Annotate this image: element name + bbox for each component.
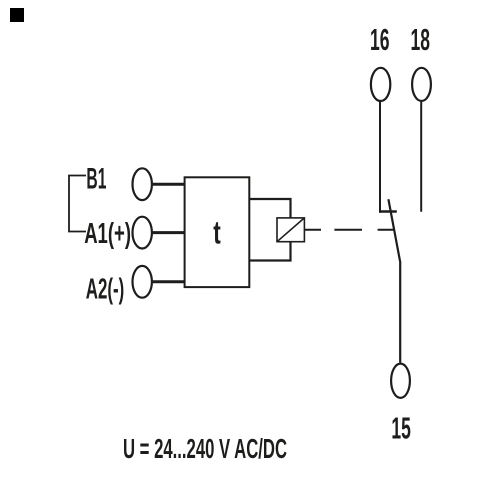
terminal circle 16	[371, 68, 390, 101]
wire A2 to timer	[151, 280, 185, 283]
svg-text:A2(-): A2(-)	[86, 273, 125, 305]
actuation dashed link	[304, 229, 393, 231]
corner marker	[10, 8, 24, 22]
terminal circle B1	[133, 168, 152, 200]
wire contact 16	[379, 102, 381, 213]
terminal circle 15	[391, 364, 410, 398]
wire timer to coil top	[249, 199, 290, 218]
terminal circle A2	[133, 266, 152, 298]
svg-text:t: t	[213, 214, 221, 250]
svg-text:18: 18	[411, 22, 431, 57]
svg-text:U = 24...240 V AC/DC: U = 24...240 V AC/DC	[123, 433, 287, 464]
terminal circle 18	[412, 68, 431, 101]
contact arm	[388, 199, 400, 362]
wire A1 to timer	[151, 231, 185, 234]
wire B1 to timer	[151, 183, 185, 186]
terminal circle A1	[133, 217, 152, 249]
bracket linking B1 and A1	[69, 176, 86, 232]
svg-text:B1: B1	[86, 163, 106, 196]
wire contact 18	[420, 102, 422, 212]
timer block	[185, 177, 250, 287]
relay coil K1	[277, 218, 304, 242]
svg-text:A1(+): A1(+)	[84, 218, 131, 250]
svg-text:15: 15	[391, 410, 411, 445]
coil diagonal	[277, 218, 304, 242]
svg-text:16: 16	[370, 22, 390, 57]
wire timer to coil bottom	[249, 242, 290, 261]
contact seat tick	[380, 210, 397, 212]
